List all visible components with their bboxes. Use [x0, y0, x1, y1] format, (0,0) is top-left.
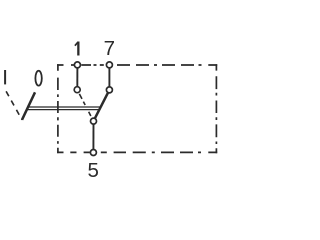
fixed contact circle under terminal 1	[74, 87, 80, 93]
fixed contact circle under terminal 7	[106, 87, 112, 93]
lever position 0, solid thick	[22, 92, 35, 120]
wire pivot contact to terminal 5	[92, 121, 94, 152]
svg-text:7: 7	[104, 37, 115, 60]
enclosure bottom border (dash-dot)	[57, 151, 217, 153]
terminal 1 circle	[74, 62, 80, 68]
enclosure left border (dash-dot)	[57, 64, 59, 153]
terminal 7 circle	[106, 62, 112, 68]
terminal 5 circle	[90, 150, 96, 156]
pivot contact circle above terminal 5	[91, 118, 97, 124]
mechanical link double line upper	[28, 106, 101, 108]
wire terminal 7 to fixed contact	[108, 65, 110, 90]
enclosure right border (dash-dot)	[215, 64, 217, 153]
contact arm alternate position (dashed, 1 to 5)	[79, 94, 90, 116]
mechanical link double line lower	[27, 109, 99, 111]
wire terminal 1 to fixed contact	[76, 65, 78, 90]
label terminal 1 (drawn digit)	[75, 42, 80, 56]
lever position I, dashed	[6, 91, 22, 120]
enclosure top border (dash-dot)	[57, 64, 217, 66]
svg-text:5: 5	[87, 159, 98, 182]
label position 0 (drawn oval zero)	[35, 71, 41, 86]
label position I (drawn bar)	[4, 70, 6, 84]
contact arm closed position (7 to 5), thick	[94, 90, 110, 121]
